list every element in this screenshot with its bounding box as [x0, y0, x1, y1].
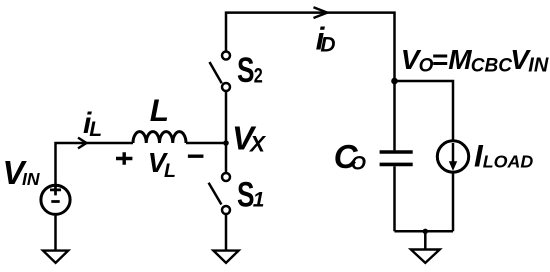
svg-text:D: D: [320, 33, 335, 56]
svg-text:X: X: [248, 132, 267, 157]
svg-text:−: −: [186, 139, 204, 174]
svg-text:LOAD: LOAD: [483, 152, 534, 172]
svg-text:1: 1: [253, 189, 265, 212]
svg-text:L: L: [150, 92, 169, 128]
svg-text:2: 2: [254, 65, 263, 88]
svg-text:L: L: [164, 160, 176, 182]
svg-text:S: S: [237, 51, 255, 90]
svg-text:IN: IN: [22, 169, 40, 189]
svg-text:=: =: [432, 44, 448, 75]
svg-text:IN: IN: [528, 55, 549, 77]
svg-text:O: O: [351, 153, 366, 175]
svg-text:L: L: [89, 118, 102, 141]
svg-text:M: M: [448, 44, 472, 75]
svg-text:CBC: CBC: [471, 56, 512, 77]
